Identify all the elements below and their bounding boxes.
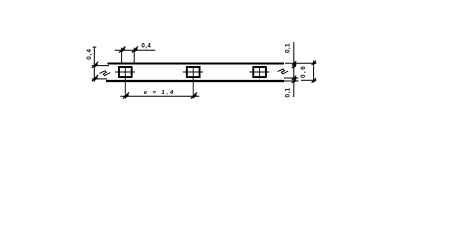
svg-text:0,1: 0,1 <box>284 43 291 53</box>
svg-text:0,4: 0,4 <box>86 48 93 60</box>
svg-text:0,1: 0,1 <box>284 87 291 97</box>
svg-text:0,6: 0,6 <box>300 65 307 78</box>
svg-text:0,4: 0,4 <box>141 43 151 50</box>
svg-text:e = 1,4: e = 1,4 <box>144 90 175 96</box>
